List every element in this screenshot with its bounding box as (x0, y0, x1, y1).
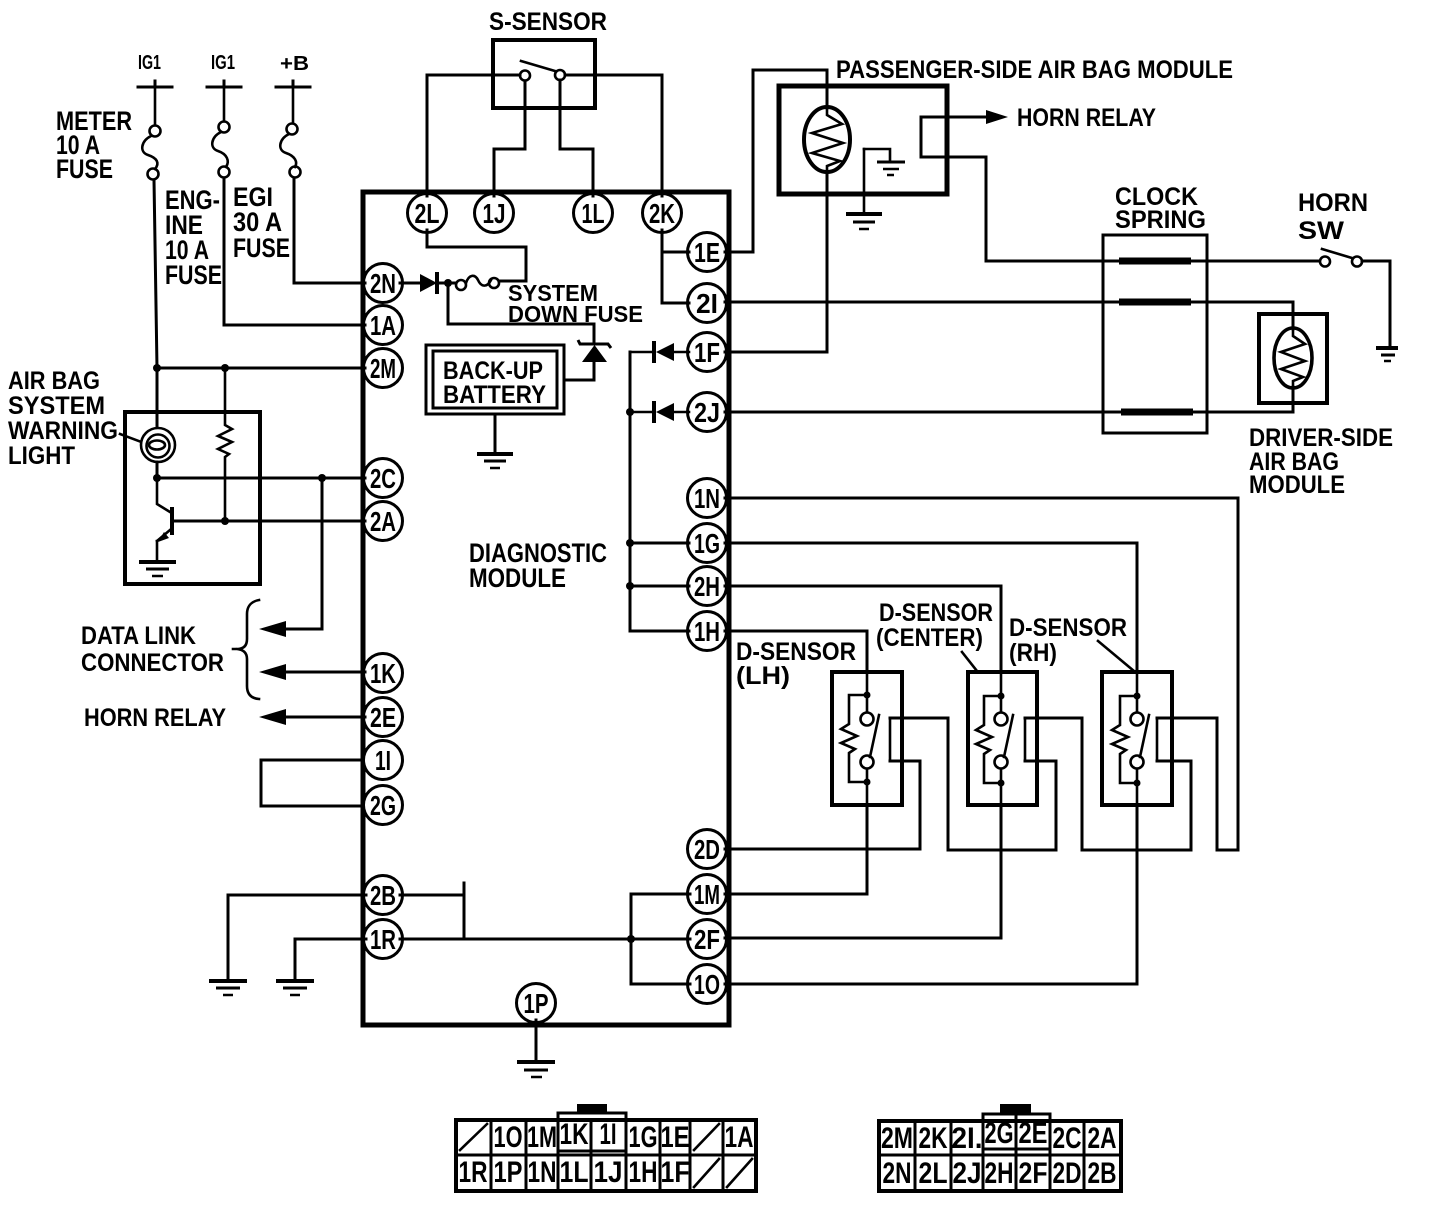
wire 1R to 2F (400, 935, 690, 943)
ground G1 transistor emitter (139, 562, 176, 576)
pin 2E (364, 698, 403, 737)
transistor Q1 (157, 478, 174, 561)
diode D1 (2N) (420, 272, 437, 294)
wire 2E horn relay (282, 716, 365, 719)
svg-text:1L: 1L (560, 1156, 589, 1189)
clock spring contact bar 2 (1119, 299, 1191, 306)
svg-text:2I: 2I (696, 288, 718, 319)
wire horn feed to clock spring (921, 157, 1320, 261)
internal bus node B (626, 352, 634, 631)
pin 2F (688, 920, 727, 959)
svg-text:1O: 1O (494, 1121, 523, 1154)
d-sensor CENTER label (876, 599, 993, 671)
svg-text:SYSTEM: SYSTEM (8, 392, 105, 420)
fuse F4 system down fuse (456, 276, 643, 327)
wire 1H to d-sensor LH (725, 631, 867, 672)
pin 2B (364, 876, 403, 915)
wire IG1 to engine fuse (223, 87, 226, 122)
svg-text:CONNECTOR: CONNECTOR (81, 649, 224, 677)
connector C2 body (879, 1104, 1121, 1191)
pin 1H (688, 612, 727, 651)
svg-text:2M: 2M (881, 1122, 913, 1155)
ground G7 (passenger external) (846, 214, 882, 229)
wire 1M to d-sensor LH return (725, 805, 867, 894)
S-sensor switch SW1 (520, 61, 565, 81)
d-sensor CENTER switch and resistor (976, 672, 1025, 806)
svg-text:1P: 1P (494, 1156, 523, 1189)
pin 1A (364, 306, 403, 345)
svg-text:1J: 1J (594, 1156, 623, 1189)
svg-text:1A: 1A (370, 310, 396, 341)
svg-text:(CENTER): (CENTER) (876, 624, 983, 652)
svg-text:2H: 2H (985, 1157, 1014, 1190)
d-sensor RH switch and resistor (1112, 672, 1157, 806)
svg-text:1L: 1L (582, 198, 605, 229)
zener diode D2 (564, 340, 611, 380)
pin 2L (408, 194, 447, 233)
pin 1O (688, 965, 727, 1004)
power feed IG1 (meter) (138, 52, 172, 87)
connector C1 pin labels row 2 (459, 1156, 690, 1189)
warning light assembly box (125, 412, 260, 584)
wire 2A base (174, 520, 365, 523)
wire d-sensor center to RH chain (1025, 718, 1191, 850)
pin 1E (688, 233, 727, 272)
svg-text:2K: 2K (919, 1122, 948, 1155)
svg-text:1O: 1O (694, 969, 720, 1000)
wire 2I to driver squib top (725, 302, 1293, 329)
jumper 1I to 2G (261, 760, 365, 806)
fuse F2 ENGINE 10A (165, 122, 230, 291)
svg-text:SW: SW (1298, 217, 1344, 245)
node A junction (437, 279, 456, 287)
wire battery to ground (494, 414, 497, 452)
svg-text:2L: 2L (919, 1157, 948, 1190)
horn switch SW2 (1298, 189, 1368, 267)
wire meter fuse to 2M and warning light (153, 180, 161, 429)
diode D4 (2J) (630, 401, 689, 423)
svg-text:1K: 1K (560, 1118, 589, 1151)
svg-text:1N: 1N (528, 1156, 557, 1189)
wire bus to 1G (630, 542, 689, 545)
pin 1F (688, 333, 727, 372)
svg-text:2D: 2D (694, 834, 720, 865)
passenger-side air bag module box (779, 56, 1233, 194)
svg-text:2L: 2L (415, 198, 440, 229)
svg-text:FUSE: FUSE (165, 260, 222, 290)
clock spring box (1103, 183, 1207, 433)
wire engine fuse to 1A (224, 178, 365, 325)
svg-text:2J: 2J (953, 1157, 982, 1190)
wire internal bracket 1M 2F 1O (631, 894, 690, 984)
svg-text:FUSE: FUSE (56, 154, 113, 184)
d-sensor LH label (736, 638, 856, 690)
fuse F1 METER 10A (56, 106, 161, 184)
svg-text:2C: 2C (1053, 1122, 1082, 1155)
svg-text:BATTERY: BATTERY (443, 381, 546, 409)
wire 2F to d-sensor center return (725, 806, 1001, 938)
svg-text:1I: 1I (600, 1118, 617, 1151)
svg-text:2N: 2N (883, 1157, 912, 1190)
pin 2K (643, 194, 682, 233)
diagnostic module U1 box (363, 192, 729, 1025)
wire bus to 2H (630, 585, 689, 588)
pin 2I (688, 284, 727, 323)
wire lamp to 2C node (153, 462, 161, 482)
pin 2A (364, 502, 403, 541)
S-sensor box (489, 8, 607, 108)
svg-text:2D: 2D (1053, 1157, 1082, 1190)
connector C2 pin labels row 2 (883, 1157, 1117, 1190)
driver-side air bag module box (1249, 314, 1393, 499)
ground G5 (battery) (477, 454, 513, 468)
fuse F3 EGI 30A (233, 124, 301, 264)
wire squib to 1F (725, 172, 827, 352)
wire 1G to d-sensor RH (725, 543, 1137, 672)
pin 2H (688, 567, 727, 606)
resistor R1 (218, 364, 232, 525)
clock spring contact bar 1 (1119, 258, 1191, 265)
svg-text:MODULE: MODULE (469, 563, 566, 593)
ground G2 (2B) (209, 981, 247, 995)
lamp L1 warning light (141, 428, 175, 462)
wire passenger case to ground (863, 149, 866, 212)
arrow horn relay (259, 709, 286, 725)
svg-text:2B: 2B (370, 880, 396, 911)
svg-text:WARNING: WARNING (8, 417, 118, 445)
wire d-sensor LH to center chain (890, 718, 1056, 850)
connector C1 pin labels row 1 (494, 1118, 754, 1154)
arrow data link upper (259, 621, 286, 637)
ground G8 (horn switch) (1376, 348, 1398, 361)
ground G3 (1R) (276, 981, 314, 995)
wire 2K to 1E and 2I internal (662, 230, 689, 303)
svg-text:2I.: 2I. (952, 1122, 983, 1155)
svg-text:PASSENGER-SIDE AIR BAG MODULE: PASSENGER-SIDE AIR BAG MODULE (836, 56, 1233, 84)
d-sensor RH label (1009, 614, 1134, 671)
svg-text:1H: 1H (694, 616, 720, 647)
svg-text:FUSE: FUSE (233, 233, 290, 263)
svg-text:2A: 2A (1088, 1122, 1117, 1155)
svg-text:1F: 1F (661, 1156, 690, 1189)
wire horn switch to ground (1362, 261, 1390, 346)
svg-text:2C: 2C (370, 463, 396, 494)
wire 2B to 1R link (400, 883, 464, 939)
wire 1K data link (282, 671, 365, 674)
svg-text:HORN RELAY: HORN RELAY (1017, 104, 1156, 132)
svg-text:2E: 2E (370, 702, 396, 733)
pin 1K (364, 654, 403, 693)
squib SQ2 driver (1274, 328, 1312, 388)
svg-text:IG1: IG1 (211, 52, 235, 74)
svg-text:1A: 1A (725, 1121, 754, 1154)
svg-text:1R: 1R (370, 924, 396, 955)
wire 1O to d-sensor RH return (725, 806, 1137, 984)
pin 1I (364, 741, 403, 780)
brace data link connector (233, 600, 259, 699)
wire 1P to ground (535, 1020, 538, 1060)
clock spring contact bar 3 (1121, 409, 1193, 416)
wire 2C (157, 474, 365, 482)
wire 2L to system down fuse (427, 230, 526, 281)
wire 1E to passenger squib (725, 70, 827, 252)
svg-text:2G: 2G (985, 1117, 1014, 1150)
svg-text:2F: 2F (1019, 1157, 1048, 1190)
svg-text:LIGHT: LIGHT (8, 442, 75, 470)
pin 1N (688, 479, 727, 518)
svg-text:2G: 2G (370, 790, 396, 821)
connector C1 slashes (460, 1124, 752, 1187)
svg-text:(LH): (LH) (736, 662, 790, 690)
arrow data link lower (1K) (259, 664, 286, 680)
d-sensor RH box (1102, 672, 1172, 805)
svg-text:2M: 2M (370, 353, 396, 384)
svg-text:2A: 2A (370, 506, 396, 537)
wire horn relay tap (921, 117, 986, 157)
connector C1 body (456, 1104, 756, 1191)
pin 2N (364, 264, 403, 303)
svg-text:D-SENSOR: D-SENSOR (1009, 614, 1127, 642)
squib SQ1 passenger (804, 107, 850, 172)
wire 2B left to ground (228, 895, 366, 978)
svg-text:IG1: IG1 (138, 52, 161, 74)
svg-text:MODULE: MODULE (1249, 471, 1345, 499)
wire 2L to S-sensor (427, 75, 520, 196)
pin 1M (688, 875, 727, 914)
svg-text:1E: 1E (661, 1121, 690, 1154)
wire 2M (157, 367, 365, 370)
svg-text:1M: 1M (527, 1121, 557, 1154)
wire EGI fuse to 2N (294, 178, 365, 283)
svg-text:DATA LINK: DATA LINK (81, 622, 196, 650)
power feed +B (276, 53, 310, 87)
svg-text:2N: 2N (370, 268, 396, 299)
svg-text:D-SENSOR: D-SENSOR (879, 599, 993, 627)
wire 1R left to ground (295, 939, 366, 978)
svg-text:(RH): (RH) (1009, 639, 1057, 667)
arrow horn relay (passenger) (986, 110, 1008, 124)
pin 2G (364, 786, 403, 825)
pin 1J (475, 194, 514, 233)
pin 2M (364, 349, 403, 388)
pin 2C (364, 459, 403, 498)
power feed IG1 (engine) (207, 52, 241, 87)
svg-text:1G: 1G (629, 1121, 658, 1154)
svg-text:2E: 2E (1019, 1117, 1048, 1150)
d-sensor CENTER box (968, 672, 1037, 805)
wire S-sensor to 2K (565, 75, 662, 196)
wire d-sensor RH chain out (1157, 717, 1217, 720)
pin 1P (517, 984, 556, 1023)
wire driver squib to 2J (725, 387, 1293, 412)
wire IG1 to meter fuse (154, 87, 157, 126)
svg-text:HORN RELAY: HORN RELAY (84, 704, 226, 732)
svg-text:1H: 1H (629, 1156, 658, 1189)
svg-text:AIR BAG: AIR BAG (8, 367, 100, 395)
connector C2 pin labels row 1 (881, 1117, 1117, 1155)
svg-text:2J: 2J (694, 397, 720, 428)
svg-text:2K: 2K (649, 198, 675, 229)
pin 1R (364, 920, 403, 959)
svg-text:1J: 1J (483, 198, 506, 229)
svg-text:1F: 1F (694, 337, 720, 368)
wire S-sensor to 1L (560, 80, 593, 196)
wire data link from 2C node (282, 478, 322, 629)
back-up battery BT1 (426, 345, 564, 414)
pin 1L (574, 194, 613, 233)
svg-text:2B: 2B (1088, 1157, 1117, 1190)
svg-text:2F: 2F (694, 924, 720, 955)
ground G6 (passenger internal) (864, 149, 905, 175)
pin 1G (688, 524, 727, 563)
data link connector label (81, 622, 224, 677)
wire +B to EGI fuse (292, 87, 295, 124)
ground G4 (1P) (517, 1062, 555, 1077)
svg-text:HORN: HORN (1298, 189, 1368, 217)
diode D3 (1F) (630, 341, 689, 363)
svg-text:1P: 1P (524, 988, 549, 1019)
pin 2J (688, 393, 727, 432)
svg-text:1R: 1R (459, 1156, 488, 1189)
svg-text:1K: 1K (370, 658, 396, 689)
svg-text:+B: +B (280, 53, 309, 75)
d-sensor LH switch and resistor (841, 672, 890, 805)
svg-text:1N: 1N (694, 483, 720, 514)
wire 2D to d-sensor LH contact (725, 761, 920, 849)
wire 2H to d-sensor center (725, 586, 1001, 672)
svg-text:1M: 1M (694, 879, 720, 910)
wire S-sensor to 1J (494, 81, 525, 196)
warning light label (8, 367, 144, 470)
wire 2N to diode (400, 282, 420, 285)
svg-text:S-SENSOR: S-SENSOR (489, 8, 607, 36)
wire node A to zener (448, 283, 594, 343)
svg-text:1E: 1E (694, 237, 720, 268)
wire bus to 1H (630, 630, 689, 633)
svg-text:1I: 1I (375, 745, 391, 776)
svg-text:2H: 2H (694, 571, 720, 602)
svg-text:1G: 1G (694, 528, 720, 559)
pin 2D (688, 830, 727, 869)
wire 1N to sensor chain (725, 498, 1238, 850)
svg-text:SPRING: SPRING (1115, 206, 1206, 234)
d-sensor LH box (832, 672, 902, 805)
